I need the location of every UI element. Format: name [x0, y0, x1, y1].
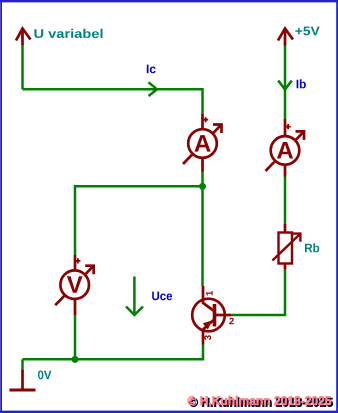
wire stub to ground	[21, 359, 24, 371]
wire Rb up to A2	[284, 176, 287, 224]
ammeter A1	[183, 114, 222, 172]
net label 0V	[38, 371, 51, 380]
junction collector node	[199, 183, 206, 190]
wire +5V down to A2	[284, 45, 287, 119]
net label U variabel	[34, 29, 102, 38]
power arrow +5V	[278, 29, 293, 46]
wire voltmeter to ground rail	[74, 315, 77, 359]
pin 3	[204, 335, 211, 340]
wire middle horizontal to voltmeter	[75, 186, 203, 255]
voltmeter V1	[55, 255, 93, 315]
resistor Rb	[272, 224, 300, 269]
net label Ib	[297, 79, 306, 88]
wire from U variabel down	[21, 45, 24, 89]
net label +5V	[295, 27, 319, 36]
transistor Q1	[192, 286, 231, 345]
net label Ic	[147, 65, 156, 74]
pin 2	[229, 318, 234, 325]
current arrow Ic	[149, 82, 158, 96]
ground symbol	[10, 370, 36, 390]
ammeter A2	[266, 119, 305, 177]
pin 1	[206, 291, 213, 295]
junction ground rail node	[72, 356, 79, 363]
net label Uce	[152, 292, 172, 301]
wire base to Rb	[231, 269, 285, 315]
wire top horizontal Ic run	[23, 89, 203, 114]
current arrow Ib	[278, 81, 292, 90]
value label Rb	[305, 243, 319, 252]
wire A1 to collector node	[201, 172, 204, 287]
voltage arrow Uce	[126, 277, 143, 316]
wire ground rail	[23, 345, 204, 360]
power arrow U variabel	[16, 29, 31, 46]
copyright notice	[189, 398, 333, 407]
